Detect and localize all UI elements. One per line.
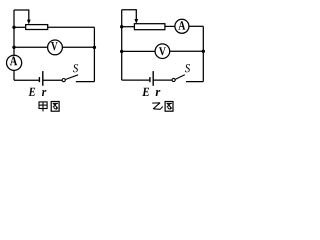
node junction dot top-left circuit 1	[12, 26, 15, 29]
wire left rail circuit 2	[121, 10, 123, 80]
node junction dot voltmeter right circuit 1	[93, 46, 96, 49]
wire wiper riser circuit 2	[122, 10, 137, 20]
switch S2 pivot	[172, 78, 175, 81]
rheostat wiper arrowhead circuit 2	[134, 19, 138, 24]
wire left rail circuit 1	[13, 10, 15, 55]
resistor R2 rheostat box circuit 2	[134, 24, 165, 30]
wire battery to switch circuit 1	[43, 79, 62, 81]
wire top branch right circuit 1	[48, 26, 95, 28]
resistor R1 rheostat box circuit 1	[26, 25, 48, 30]
figure label tu character circuit 2	[165, 102, 173, 112]
wire bottom branch right circuit 1	[76, 81, 95, 83]
voltmeter V2 letter	[159, 47, 166, 55]
wire bottom branch right circuit 2	[186, 81, 203, 83]
wire bottom branch left circuit 1	[14, 79, 39, 81]
ammeter A2 letter	[178, 21, 185, 29]
wire bottom branch left circuit 2	[122, 79, 150, 81]
wire voltmeter branch right circuit 1	[62, 46, 94, 48]
switch S1 lever	[65, 75, 78, 80]
battery positive plate circuit 1	[42, 71, 44, 86]
battery negative plate circuit 2	[149, 77, 151, 82]
voltmeter V1 circle	[48, 40, 63, 55]
ammeter A1 circle	[7, 55, 22, 70]
wire ammeter to right rail circuit 2	[189, 25, 203, 27]
wire top branch left circuit 2	[122, 26, 135, 28]
figure label jia character circuit 1	[39, 102, 47, 112]
switch S1 letter	[73, 64, 78, 72]
node junction dot voltmeter left circuit 1	[12, 46, 15, 49]
wire voltmeter branch right circuit 2	[170, 50, 204, 52]
battery label r circuit 1	[42, 90, 47, 96]
voltmeter V2 circle	[155, 44, 170, 59]
node junction dot voltmeter right circuit 2	[202, 50, 205, 53]
node junction dot voltmeter left circuit 2	[120, 50, 123, 53]
switch S1 pivot	[62, 79, 65, 82]
wire left rail below ammeter circuit 1	[13, 70, 15, 80]
switch S2 lever	[175, 75, 185, 80]
rheostat wiper arrowhead circuit 1	[27, 20, 31, 25]
wire battery to switch circuit 2	[153, 79, 172, 81]
wire wiper riser circuit 1	[14, 10, 29, 21]
wire right rail circuit 2	[202, 26, 204, 81]
voltmeter V1 letter	[51, 42, 58, 50]
figure label tu character circuit 1	[51, 102, 59, 112]
wire right rail circuit 1	[93, 27, 95, 81]
ammeter A1 letter	[10, 57, 17, 66]
wire voltmeter branch left circuit 2	[122, 50, 156, 52]
wire top branch left circuit 1	[14, 26, 26, 28]
wire rheostat to ammeter circuit 2	[165, 25, 175, 27]
node junction dot top-left circuit 2	[120, 25, 123, 28]
battery positive plate circuit 2	[152, 71, 154, 86]
wire voltmeter branch left circuit 1	[14, 46, 48, 48]
ammeter A2 circle	[175, 19, 189, 33]
switch S2 letter	[185, 64, 190, 72]
battery negative plate circuit 1	[38, 77, 40, 82]
battery label E circuit 1	[29, 88, 36, 96]
figure label yi character circuit 2	[152, 103, 163, 110]
battery label E circuit 2	[142, 88, 149, 96]
battery label r circuit 2	[156, 90, 161, 96]
